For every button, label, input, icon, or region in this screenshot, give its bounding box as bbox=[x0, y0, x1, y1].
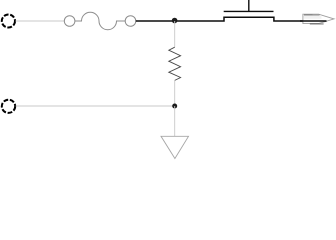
output port arrow (pentagon with faint label) bbox=[303, 14, 334, 25]
wire junction to ground bbox=[174, 106, 176, 136]
transistor M1 gate plate bbox=[224, 10, 274, 12]
ground (open triangle) bbox=[161, 136, 189, 158]
wire P1 to inline symbol bbox=[16, 20, 65, 22]
transistor M1 gate lead (runs to top edge) bbox=[248, 0, 250, 11]
resistor R1 (zigzag) bbox=[169, 47, 181, 80]
wire (thick) overlapping output arrow bbox=[300, 20, 327, 22]
node junction dot (top) bbox=[172, 18, 178, 24]
inline component sine squiggle bbox=[75, 12, 125, 30]
node junction dot (bottom) bbox=[172, 104, 177, 109]
port P2 (bottom-left terminal, dashed circle) bbox=[2, 100, 15, 113]
wire (thick) from symbol through transistor channel to output bbox=[136, 17, 327, 21]
inline component right circle bbox=[125, 16, 136, 27]
port P1 (top-left input terminal, dashed circle) bbox=[2, 15, 15, 28]
wire junction to resistor bbox=[174, 21, 176, 47]
wire resistor to bottom junction bbox=[174, 80, 176, 106]
inline component left circle bbox=[64, 16, 75, 27]
wire P2 to bottom junction bbox=[16, 105, 175, 107]
